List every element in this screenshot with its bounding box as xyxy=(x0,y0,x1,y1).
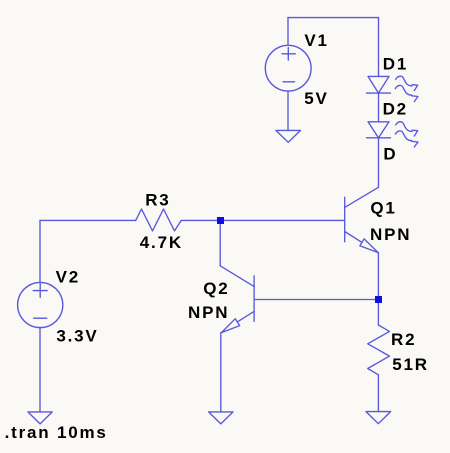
diode D1 (LED) xyxy=(367,76,419,101)
transistor Q2 xyxy=(220,266,254,333)
wire Q2 emitter lead xyxy=(220,333,222,412)
svg-text:R3: R3 xyxy=(145,191,170,210)
wire LED branch top xyxy=(378,18,380,77)
svg-text:Q1: Q1 xyxy=(370,199,396,218)
wire V1 bottom lead xyxy=(287,91,289,130)
diode D2 (LED) xyxy=(367,122,419,147)
wire Q2 base lead xyxy=(254,299,375,301)
svg-text:V1: V1 xyxy=(304,31,328,50)
node junction Q1 emitter / Q2 base / R2 xyxy=(375,296,382,303)
svg-text:51R: 51R xyxy=(392,355,429,374)
wire V2 bottom lead xyxy=(39,327,41,412)
wire Q1 emitter lead xyxy=(377,253,379,296)
wire junction to R2 xyxy=(377,303,379,325)
svg-text:5V: 5V xyxy=(304,89,328,108)
svg-text:NPN: NPN xyxy=(188,303,229,322)
wire base rail right xyxy=(181,219,344,221)
voltage source V1 xyxy=(265,45,311,91)
svg-text:D2: D2 xyxy=(383,99,408,118)
voltage source V2 xyxy=(18,282,63,327)
wire top rail xyxy=(288,17,379,19)
resistor R3 xyxy=(136,209,182,231)
ground (V2) xyxy=(28,412,52,424)
wire D1 to D2 xyxy=(378,93,380,122)
svg-text:D: D xyxy=(383,145,397,164)
wire base rail left xyxy=(40,219,136,221)
node junction on base rail xyxy=(217,217,224,224)
ground (V1) xyxy=(276,130,301,142)
svg-text:V2: V2 xyxy=(56,268,80,287)
ground (R2) xyxy=(366,412,391,424)
svg-text:4.7K: 4.7K xyxy=(140,233,183,252)
svg-text:Q2: Q2 xyxy=(203,279,229,298)
wire V2 top lead xyxy=(39,220,41,282)
ground (Q2) xyxy=(209,412,233,424)
wire R2 bottom lead xyxy=(377,375,379,412)
wire V1 top lead xyxy=(287,18,289,46)
resistor R2 xyxy=(368,325,390,375)
transistor Q1 xyxy=(345,187,379,252)
wire Q2 collector lead xyxy=(219,223,221,266)
wire node D (D2 cathode to Q1 collector) xyxy=(378,138,380,188)
svg-text:.tran 10ms: .tran 10ms xyxy=(5,423,108,442)
svg-text:3.3V: 3.3V xyxy=(56,326,98,345)
svg-text:D1: D1 xyxy=(383,55,408,74)
svg-text:R2: R2 xyxy=(391,330,416,349)
svg-text:NPN: NPN xyxy=(370,225,411,244)
